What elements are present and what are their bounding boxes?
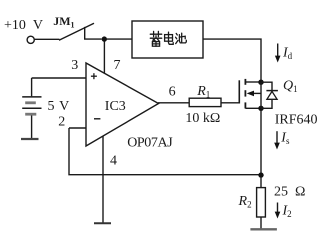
transistor Q1 source stub — [245, 107, 261, 109]
svg-text:6: 6 — [169, 85, 176, 100]
svg-text:7: 7 — [114, 58, 121, 73]
池 — [176, 33, 177, 35]
battery box outline — [132, 21, 203, 58]
svg-text:IRF640: IRF640 — [275, 113, 318, 128]
transistor Q1 channel segments — [244, 79, 246, 85]
current arrow Id — [277, 44, 279, 57]
svg-text:5 V: 5 V — [48, 99, 70, 114]
battery B1 plate long — [22, 107, 41, 109]
svg-text:25 Ω: 25 Ω — [274, 185, 305, 200]
op-amp minus sign — [94, 118, 100, 120]
wire between drain and source dots — [260, 82, 262, 108]
battery B1 plate short thick lower — [25, 113, 36, 116]
body diode triangle — [267, 91, 277, 99]
feedback wire down and right to node B — [69, 128, 259, 175]
ground bar under op-amp — [94, 222, 111, 224]
resistor R2 body — [257, 188, 266, 217]
wire node A down to pin 7 — [103, 42, 105, 75]
transistor Q1 drain stub — [245, 81, 261, 83]
battery bottom terminator bar — [21, 138, 39, 140]
svg-text:3: 3 — [71, 58, 78, 73]
pin 3 wire — [32, 77, 86, 79]
op-amp plus sign — [91, 75, 97, 77]
op-amp IC3 triangle — [86, 63, 159, 146]
pin 4 wire down — [102, 136, 104, 222]
switch JM1 blade — [59, 23, 94, 40]
drain junction dot — [258, 80, 263, 85]
current arrow I2 — [277, 203, 279, 213]
transistor Q1 body arrow — [251, 92, 261, 94]
svg-text:IC3: IC3 — [105, 99, 126, 114]
wire battery box to drain (corner) — [203, 39, 261, 80]
node A junction dot — [102, 36, 107, 41]
body diode cathode bar — [266, 90, 278, 92]
switch JM1 fixed contact — [85, 27, 102, 39]
svg-text:OP07AJ: OP07AJ — [127, 136, 173, 151]
wire node B to R2 — [260, 178, 262, 188]
svg-text:4: 4 — [110, 154, 117, 169]
battery B1 plate short thick — [25, 101, 36, 104]
ground bar bottom right — [250, 228, 277, 230]
transistor Q1 gate bar — [238, 80, 240, 103]
svg-text:10 kΩ: 10 kΩ — [185, 111, 220, 126]
body diode branch wires — [261, 82, 272, 90]
wire R2 to ground — [260, 217, 262, 229]
svg-text:2: 2 — [58, 115, 65, 130]
蓄 — [150, 33, 161, 35]
svg-text:+10 V: +10 V — [4, 18, 43, 33]
switch JM1 lead wire — [35, 38, 60, 40]
source junction dot — [258, 106, 263, 111]
battery negative stem — [31, 116, 33, 139]
wire R1 to gate — [221, 102, 239, 104]
pin 2 wire — [69, 127, 86, 129]
wire pin3 down to battery — [31, 78, 33, 96]
wire node A to battery box — [107, 38, 132, 40]
switch JM1 terminal circle — [27, 36, 34, 43]
node B junction dot — [258, 172, 263, 177]
current arrow Is — [276, 131, 278, 143]
battery B1 plate long top — [22, 96, 41, 98]
wire source down to node B — [260, 111, 262, 173]
output wire pin 6 — [158, 102, 189, 104]
resistor R1 body — [189, 98, 221, 106]
battery box text 蓄电池 (drawn glyphs) — [150, 31, 186, 46]
电 — [165, 35, 173, 42]
